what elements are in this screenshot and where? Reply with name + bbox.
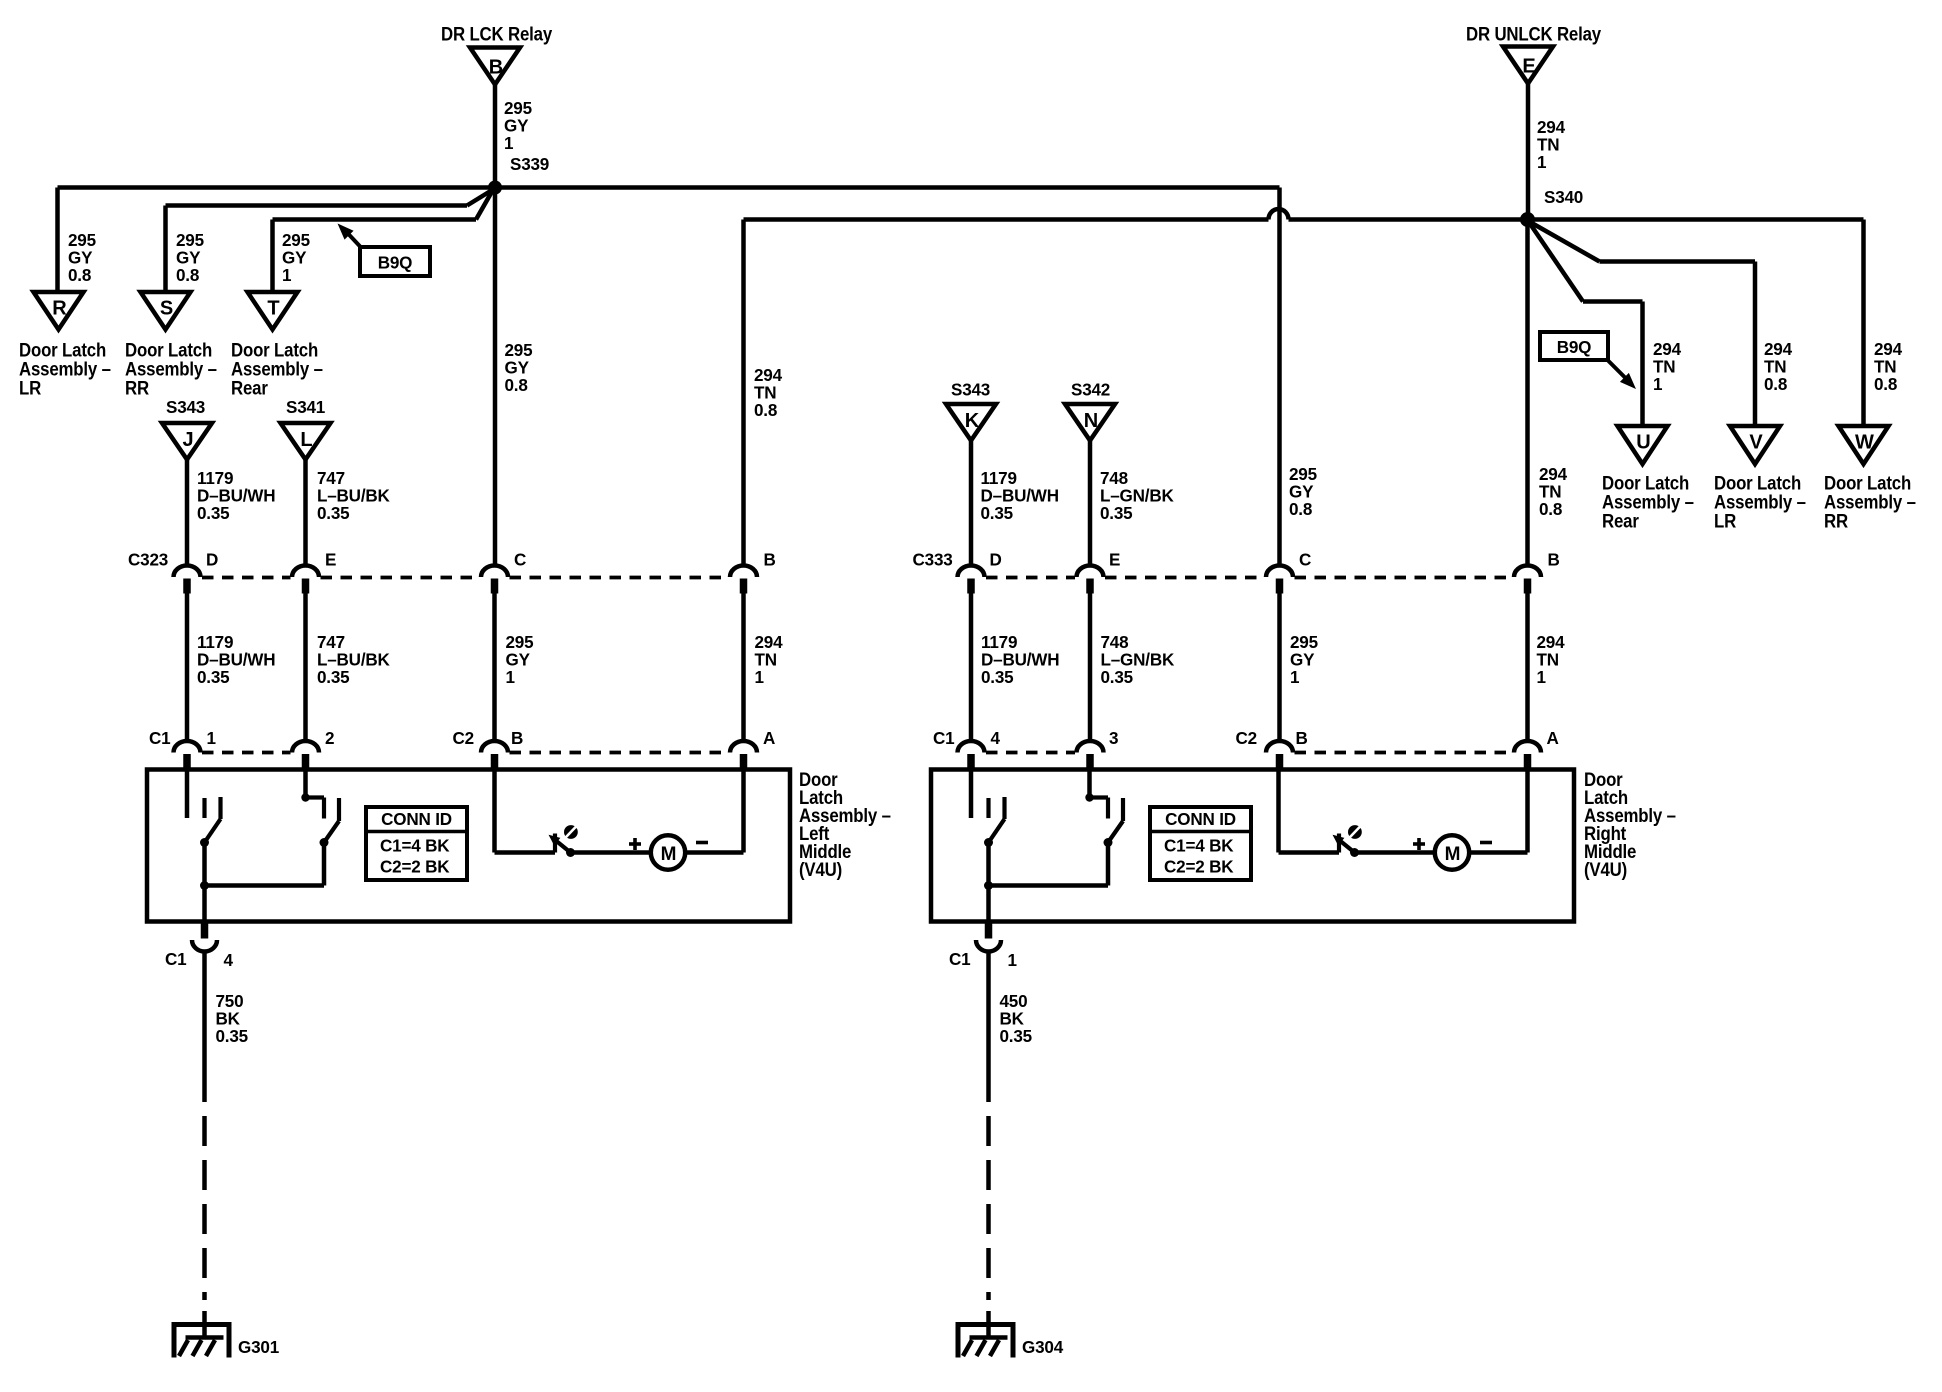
wire 294 TN bus corner down to W (1861, 220, 1866, 427)
wire 1179 D-BU/WH (between connectors) (185, 592, 190, 742)
svg-text:C323: C323 (128, 549, 169, 569)
svg-text:J: J (182, 429, 193, 451)
dashed connector line C323 C-B (510, 576, 729, 580)
svg-text:1: 1 (504, 133, 514, 153)
lock switch 2 input stub (left) (303, 770, 308, 798)
svg-text:0.35: 0.35 (317, 503, 350, 523)
wire S340 to U branch (diagonal) (1530, 223, 1584, 302)
svg-text:1: 1 (1537, 667, 1547, 687)
svg-text:0.35: 0.35 (216, 1026, 249, 1046)
connector C1/C2 right pin 3 (1077, 741, 1104, 753)
svg-text:C1: C1 (949, 949, 971, 969)
svg-text:0.8: 0.8 (1289, 499, 1313, 519)
connector C323 pin B (730, 566, 757, 577)
motor minus sign (left) (696, 841, 708, 845)
svg-text:C1=4 BK: C1=4 BK (1164, 835, 1234, 855)
callout arrow B9Q (left) (347, 233, 362, 249)
splice S339 (488, 181, 502, 195)
svg-text:4: 4 (224, 950, 234, 970)
lock switch 2 pivot (right) (1104, 838, 1113, 847)
splice S340 (1520, 212, 1535, 227)
svg-text:M: M (661, 844, 677, 865)
lock switch 1 pivot wire (right) (986, 843, 991, 886)
svg-text:CONN ID: CONN ID (381, 809, 452, 829)
splice triangle K (946, 404, 996, 441)
svg-text:C2=2 BK: C2=2 BK (1164, 856, 1234, 876)
svg-text:D: D (206, 549, 218, 569)
motor M (left) (651, 835, 685, 869)
connector C323 pin E (292, 566, 319, 577)
callout box B9Q (left) (360, 247, 430, 276)
lock switch 2 hook bar (left) (306, 795, 325, 799)
connector C333 pin D (958, 566, 985, 577)
wire 295 GY down to C333-C (1277, 188, 1282, 567)
svg-text:E: E (325, 549, 336, 569)
relay triangle E (DR UNLCK Relay) (1503, 47, 1553, 84)
connector C1 pin 1 (box exit) (985, 922, 993, 939)
lock switch 2 junction dot (left) (301, 793, 309, 801)
svg-text:RR: RR (125, 376, 149, 399)
dashed connector line C333 D-E (986, 576, 1075, 580)
ground wire solid (G301) (202, 952, 207, 1103)
connector C323 pin C (481, 566, 508, 577)
svg-text:C1=4 BK: C1=4 BK (380, 835, 450, 855)
wire to T (down) (270, 220, 275, 293)
lock switch 1 pivot wire (left) (202, 843, 207, 886)
svg-text:S342: S342 (1071, 379, 1110, 399)
lock switch 2 blade (right) (1109, 821, 1123, 841)
wire 295 GY (between connectors) (492, 592, 497, 742)
connector C1/C2 left pin A (730, 741, 757, 753)
door latch assembly box outline (right) (931, 770, 1574, 922)
svg-text:A: A (763, 728, 776, 748)
wire S339 to S branch (diagonal) (467, 190, 493, 206)
connector C1/C2 left pin B (481, 741, 508, 753)
motor switch pivot (right) (1350, 848, 1359, 857)
lock switch 2 pivot wire (left) (322, 843, 327, 886)
svg-text:C: C (514, 549, 527, 569)
svg-text:LR: LR (1714, 509, 1736, 532)
svg-text:G301: G301 (238, 1337, 279, 1357)
switch link wire (left) (205, 883, 325, 888)
motor switch contact (left) (553, 834, 557, 853)
splice triangle N (1065, 404, 1115, 441)
motor wire to motor (right) (1355, 850, 1436, 855)
wire to S (down) (163, 206, 168, 293)
lock switch 2 input stub (right) (1087, 770, 1092, 798)
svg-text:1: 1 (282, 265, 292, 285)
svg-text:0.8: 0.8 (505, 375, 529, 395)
door latch assembly box outline (left) (147, 770, 790, 922)
ground exit wire (right) (986, 886, 991, 922)
svg-text:2: 2 (325, 728, 334, 748)
svg-text:S343: S343 (166, 397, 206, 417)
wire K to C333-D (969, 441, 974, 567)
wire 294 TN bus (S340 horizontal) (744, 217, 1269, 222)
relay triangle B (DR LCK Relay) (470, 48, 520, 85)
splice triangle L (281, 423, 331, 460)
wire 748 L-GN/BK (between connectors) (1088, 592, 1093, 742)
svg-text:0.35: 0.35 (981, 503, 1014, 523)
svg-text:D: D (990, 549, 1002, 569)
svg-text:1: 1 (1537, 152, 1547, 172)
motor feed wire B (left) (492, 770, 497, 853)
off-page connector V (1730, 426, 1780, 464)
svg-text:1: 1 (207, 728, 217, 748)
motor switch symbol (circle-slash) (left) (564, 825, 578, 839)
off-page connector S (141, 292, 191, 330)
svg-text:M: M (1445, 844, 1461, 865)
wire 747 L-BU/BK (between connectors) (303, 592, 308, 742)
lock switch 2 blade (left) (325, 821, 339, 841)
wire 294 TN down to C323-B (741, 220, 746, 567)
ground wire stem (G304) (986, 1311, 991, 1338)
ground wire solid (G304) (986, 952, 991, 1103)
svg-text:S340: S340 (1544, 187, 1583, 207)
svg-text:0.8: 0.8 (754, 400, 778, 420)
svg-text:C1: C1 (149, 728, 171, 748)
callout arrow B9Q (right) (1606, 359, 1626, 379)
svg-text:RR: RR (1824, 509, 1848, 532)
svg-text:W: W (1855, 432, 1874, 454)
lock switch 2 throw bar (left) (337, 798, 341, 821)
svg-text:0.35: 0.35 (317, 667, 350, 687)
dashed connector line left 1-2 (202, 751, 291, 755)
off-page connector W (1839, 426, 1889, 464)
ground exit wire (left) (202, 886, 207, 922)
connector C333 pin E (1077, 566, 1104, 577)
lock switch 1 blade (right) (990, 819, 1005, 841)
wire T branch horizontal (273, 217, 477, 222)
svg-text:0.8: 0.8 (68, 265, 92, 285)
wire 294 TN from relay E to S340 (1526, 84, 1531, 220)
dashed connector line left B-A (510, 751, 729, 755)
dashed connector line C323 D-E (202, 576, 291, 580)
svg-text:0.35: 0.35 (1101, 667, 1134, 687)
wire 294 TN (between connectors) (741, 592, 746, 742)
svg-text:C1: C1 (933, 728, 955, 748)
svg-text:C333: C333 (913, 549, 954, 569)
svg-text:B: B (764, 549, 776, 569)
off-page connector R (34, 292, 84, 330)
wire L to C323-E (303, 460, 308, 567)
svg-text:A: A (1547, 728, 1560, 748)
lock switch 2 pivot (left) (320, 838, 329, 847)
switch link junction (right) (984, 881, 993, 890)
wire to V (down) (1753, 262, 1758, 427)
lock switch 1 pivot (left) (200, 838, 209, 847)
svg-text:R: R (52, 298, 67, 320)
switch link junction (left) (200, 881, 209, 890)
connector C323 pin D (174, 566, 201, 577)
dashed connector line right 4-3 (986, 751, 1075, 755)
ground wire dashed (G301) (202, 1102, 207, 1300)
svg-text:0.8: 0.8 (1539, 499, 1563, 519)
svg-text:0.35: 0.35 (981, 667, 1014, 687)
svg-text:DR UNLCK Relay: DR UNLCK Relay (1466, 22, 1602, 45)
svg-text:1: 1 (1008, 950, 1018, 970)
svg-text:0.35: 0.35 (197, 503, 230, 523)
svg-text:B9Q: B9Q (1557, 337, 1592, 357)
wire to U (down) (1640, 302, 1645, 427)
svg-text:DR LCK Relay: DR LCK Relay (441, 22, 553, 45)
dashed connector line C333 E-C (1105, 576, 1265, 580)
connector C1/C2 left pin 1 (174, 741, 201, 753)
switch link wire (right) (989, 883, 1109, 888)
svg-text:0.8: 0.8 (176, 265, 200, 285)
wire S339 to C323-C (493, 188, 498, 567)
connector C1/C2 right pin 4 (958, 741, 985, 753)
motor return wire A (right) (1469, 850, 1527, 855)
wire V branch horizontal (1600, 259, 1756, 264)
svg-text:LR: LR (19, 376, 41, 399)
connector C1/C2 left pin 2 (292, 741, 319, 753)
CONN ID table (right) (1150, 807, 1251, 880)
lock switch 1 input stub (right) (969, 770, 974, 819)
ground symbol G301 (172, 1322, 232, 1327)
dashed connector line right B-A (1295, 751, 1512, 755)
svg-text:(V4U): (V4U) (799, 858, 842, 881)
wire N to C333-E (1088, 441, 1093, 567)
svg-text:S339: S339 (510, 154, 550, 174)
svg-text:B: B (489, 57, 503, 79)
lock switch 2 throw bar (right) (1121, 798, 1125, 821)
lock switch 2 hook bar (right) (1090, 795, 1109, 799)
wire 1179 D-BU/WH (between connectors) (969, 592, 974, 742)
wire S340 to V branch (diagonal) (1530, 222, 1600, 262)
svg-text:Rear: Rear (231, 376, 268, 399)
ground symbol G304 (956, 1322, 1016, 1327)
motor switch blade (right) (1339, 840, 1355, 853)
wire 295 GY (between connectors) (1277, 592, 1282, 742)
svg-text:T: T (267, 298, 279, 320)
motor minus sign (right) (1480, 841, 1492, 845)
lock switch 1 input stub (left) (185, 770, 190, 819)
wire S340 to C333-B (1525, 220, 1530, 567)
svg-text:S341: S341 (286, 397, 326, 417)
svg-text:1: 1 (1290, 667, 1300, 687)
motor M (right) (1435, 835, 1469, 869)
svg-text:E: E (1522, 56, 1535, 78)
motor feed wire B (right) (1276, 770, 1281, 853)
dashed connector line C323 E-C (321, 576, 480, 580)
svg-text:CONN ID: CONN ID (1165, 809, 1236, 829)
svg-text:0.35: 0.35 (197, 667, 230, 687)
lock switch 2 pivot wire (right) (1106, 843, 1111, 886)
svg-text:U: U (1636, 432, 1650, 454)
svg-text:S: S (160, 298, 173, 320)
svg-text:C2=2 BK: C2=2 BK (380, 856, 450, 876)
off-page connector T (248, 292, 298, 330)
wire 294 TN (between connectors) (1525, 592, 1530, 742)
callout box B9Q (right) (1540, 332, 1608, 360)
connector C1 pin 4 (box exit) (201, 922, 209, 939)
connector C333 pin C (1266, 566, 1293, 577)
motor switch contact (right) (1337, 834, 1341, 853)
svg-text:G304: G304 (1022, 1337, 1063, 1357)
splice triangle J (162, 423, 212, 460)
motor return wire A (left) (685, 850, 743, 855)
connector C333 pin B (1514, 566, 1541, 577)
svg-text:L: L (300, 429, 312, 451)
lock switch 1 blade (left) (206, 819, 221, 841)
svg-text:B: B (511, 728, 523, 748)
motor wire to motor (left) (571, 850, 652, 855)
ground wire stem (G301) (202, 1311, 207, 1338)
svg-text:C1: C1 (165, 949, 187, 969)
svg-text:V: V (1749, 432, 1763, 454)
svg-text:B: B (1548, 549, 1560, 569)
motor plus sign (left) (629, 842, 641, 846)
wire 295 GY bus (S339 horizontal) (58, 185, 1280, 190)
off-page connector U (1618, 426, 1668, 464)
svg-text:C: C (1299, 549, 1312, 569)
svg-text:Rear: Rear (1602, 509, 1639, 532)
lock switch 1 fixed contact (right) (986, 798, 990, 818)
connector C1/C2 right pin A (1514, 741, 1541, 753)
motor switch symbol (circle-slash) (right) (1348, 825, 1362, 839)
lock switch 1 throw bar (right) (1002, 797, 1006, 819)
svg-text:C2: C2 (1236, 728, 1257, 748)
wire S branch horizontal (166, 203, 468, 208)
motor switch blade (left) (555, 840, 571, 853)
svg-text:B: B (1296, 728, 1308, 748)
wire S339 to T branch (diagonal) (476, 192, 492, 220)
svg-text:0.8: 0.8 (1764, 374, 1788, 394)
ground wire dashed (G304) (986, 1102, 991, 1300)
lock switch 1 pivot (right) (984, 838, 993, 847)
wire 295 GY from relay B to S339 (493, 85, 498, 188)
svg-text:(V4U): (V4U) (1584, 858, 1627, 881)
svg-text:1: 1 (506, 667, 516, 687)
svg-text:0.35: 0.35 (1100, 503, 1133, 523)
motor switch pivot (left) (566, 848, 575, 857)
wire J to C323-D (185, 460, 190, 567)
svg-text:C2: C2 (453, 728, 474, 748)
svg-text:1: 1 (755, 667, 765, 687)
wire to R (down) (55, 188, 60, 293)
CONN ID table (left) (366, 807, 467, 880)
lock switch 1 throw bar (left) (218, 797, 222, 819)
dashed connector line C333 C-B (1295, 576, 1513, 580)
connector C1/C2 right pin B (1266, 741, 1293, 753)
svg-text:0.8: 0.8 (1874, 374, 1898, 394)
svg-text:N: N (1084, 410, 1098, 432)
svg-text:S343: S343 (951, 379, 991, 399)
svg-text:K: K (965, 410, 980, 432)
svg-text:0.35: 0.35 (1000, 1026, 1033, 1046)
lock switch 1 fixed contact (left) (202, 798, 206, 818)
svg-text:E: E (1109, 549, 1120, 569)
wire U branch horizontal (1583, 299, 1643, 304)
svg-text:3: 3 (1109, 728, 1119, 748)
motor plus sign (right) (1413, 842, 1425, 846)
svg-text:4: 4 (991, 728, 1001, 748)
svg-text:1: 1 (1653, 374, 1663, 394)
svg-text:B9Q: B9Q (378, 252, 413, 272)
lock switch 2 junction dot (right) (1085, 793, 1093, 801)
